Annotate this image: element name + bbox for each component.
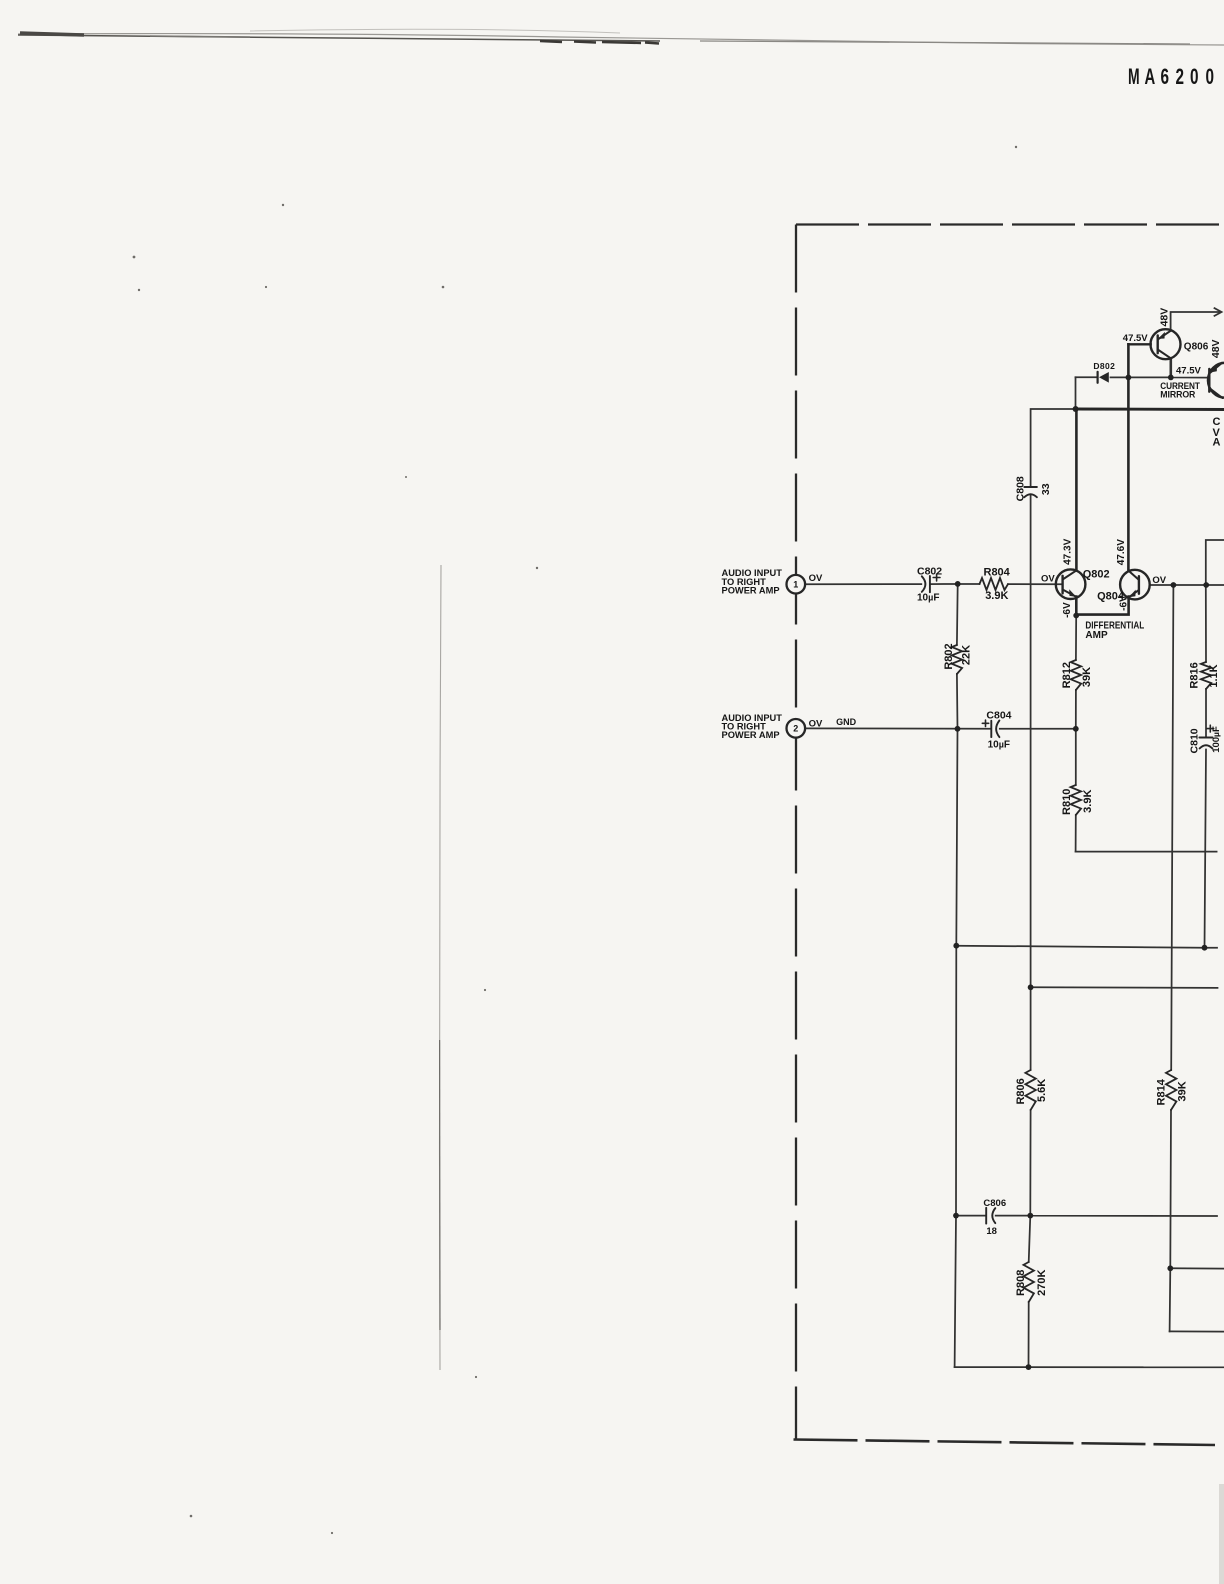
page title MA6200	[1128, 60, 1221, 90]
svg-text:Q802: Q802	[1083, 569, 1110, 581]
wire R802 column	[956, 584, 959, 729]
resistor R816	[1201, 662, 1211, 689]
wire main supply bus (thick)	[1076, 408, 1224, 411]
svg-text:48V: 48V	[1158, 308, 1170, 327]
label R802 value (rotated)	[943, 643, 972, 669]
capacitor C804	[982, 720, 999, 737]
diode D802	[1098, 372, 1109, 383]
svg-text:C808: C808	[1014, 476, 1026, 501]
node bottom rail / R808 junction	[1026, 1364, 1032, 1370]
node C804 / R812 column junction	[1073, 726, 1079, 732]
node diff emitter / R812 junction	[1073, 613, 1079, 619]
transistor Q804	[1120, 570, 1150, 600]
capacitor C806	[986, 1208, 995, 1224]
wire R812-R810 column with component gaps	[1075, 616, 1078, 852]
svg-text:47.5V: 47.5V	[1176, 366, 1201, 377]
svg-text:AMP: AMP	[1085, 630, 1108, 641]
label R806 value (rotated)	[1015, 1078, 1048, 1104]
resistor R810	[1071, 785, 1081, 815]
capacitor C808	[1024, 487, 1037, 497]
wire Q806 emitter lead	[1170, 358, 1173, 377]
wire D802 net: Q802 collector corner to bus	[1075, 377, 1077, 409]
wire Q804 base net to page edge	[1150, 584, 1224, 586]
svg-text:C804: C804	[986, 710, 1011, 722]
svg-text:10µF: 10µF	[988, 740, 1010, 751]
terminal 2 (audio input gnd)	[787, 719, 806, 738]
node Q804 base / R816 column junction	[1203, 582, 1209, 588]
svg-text:47.5V: 47.5V	[1123, 333, 1148, 344]
svg-text:3.9K: 3.9K	[985, 590, 1008, 602]
svg-text:2: 2	[793, 724, 798, 734]
wire R802 column below C804 net down to bottom-left corner	[955, 729, 958, 1367]
label CURRENT MIRROR	[1160, 380, 1200, 399]
svg-text:R810: R810	[1061, 789, 1073, 815]
svg-text:18: 18	[986, 1226, 997, 1237]
svg-text:Q806: Q806	[1184, 341, 1209, 352]
svg-text:R814: R814	[1156, 1078, 1168, 1105]
wire long right column from Q804 base node down to R814	[1170, 585, 1174, 1331]
transistor Q802	[1056, 569, 1086, 599]
svg-text:OV: OV	[809, 573, 823, 584]
svg-text:47.3V: 47.3V	[1063, 538, 1074, 564]
svg-text:R812: R812	[1061, 662, 1073, 688]
label C810 value (rotated)	[1188, 726, 1222, 753]
svg-text:100µF: 100µF	[1211, 726, 1222, 753]
svg-text:2: 2	[1176, 65, 1185, 90]
svg-text:-6V: -6V	[1062, 602, 1073, 618]
svg-text:1.1K: 1.1K	[1208, 664, 1220, 687]
dashed block border top	[796, 223, 1224, 225]
svg-text:OV: OV	[1152, 575, 1166, 586]
wire differential emitter bridge (thick)	[1076, 597, 1128, 615]
svg-text:R806: R806	[1015, 1078, 1027, 1104]
svg-text:C810: C810	[1188, 728, 1200, 753]
svg-text:M: M	[1128, 64, 1140, 89]
svg-text:C802: C802	[917, 565, 942, 577]
label R816 value (rotated)	[1189, 662, 1220, 688]
svg-text:OV: OV	[809, 718, 823, 729]
wire mid rail from R802 column to right	[956, 946, 1217, 948]
resistor R808	[1024, 1262, 1034, 1302]
svg-text:MIRROR: MIRROR	[1160, 389, 1195, 400]
svg-text:0: 0	[1190, 65, 1199, 90]
node mid rail left junction	[953, 943, 959, 949]
svg-text:R802: R802	[943, 643, 955, 669]
svg-text:39K: 39K	[1176, 1081, 1188, 1101]
wire bus thin stub from C808 corner	[1031, 409, 1076, 486]
wire R810 foot to right edge	[1076, 851, 1217, 853]
wire 48V rail from Q806 collector corner to page edge	[1171, 312, 1220, 331]
wire Q804 collector (thick)	[1127, 344, 1130, 570]
node C806 rail / R806-R808 junction	[1027, 1213, 1033, 1219]
svg-text:D802: D802	[1093, 361, 1115, 371]
label R812 value (rotated)	[1061, 662, 1093, 688]
node mid rail / C810 column junction	[1202, 945, 1208, 951]
wire bottom return rail	[955, 1366, 1224, 1368]
svg-text:10µF: 10µF	[917, 593, 939, 604]
svg-text:R804: R804	[984, 567, 1011, 579]
wire Q802 collector (thick)	[1075, 409, 1078, 571]
wire C806 net rail (gap at C806 plates)	[956, 1215, 1217, 1217]
transistor Q808 (cut by page edge)	[1208, 363, 1224, 398]
wire C808 column lower (to Q802 base crossing, down to R806)	[1029, 494, 1031, 1367]
svg-text:A: A	[1145, 65, 1156, 90]
svg-text:270K: 270K	[1036, 1269, 1048, 1295]
resistor R812	[1071, 660, 1081, 690]
node R814 bottom junction	[1167, 1265, 1173, 1271]
wire bias box corner at right edge	[1206, 540, 1224, 585]
wire input 1 to Q802 base (gaps at C802 plates and R804)	[805, 583, 1062, 585]
node R806 top rail junction	[1028, 984, 1034, 990]
wire D802 horizontal segment with diode gap	[1076, 376, 1209, 378]
wire rail from R806 top junction to right	[1031, 986, 1218, 989]
label R808 value (rotated)	[1015, 1269, 1048, 1295]
resistor R814	[1166, 1070, 1176, 1110]
svg-text:R808: R808	[1015, 1270, 1027, 1296]
svg-text:OV: OV	[1041, 573, 1055, 584]
svg-text:6: 6	[1161, 65, 1170, 90]
svg-text:48V: 48V	[1210, 339, 1222, 358]
resistor R802	[952, 645, 962, 674]
wire from right column bottom corner to right edge	[1170, 1330, 1224, 1332]
label terminal 2 text	[722, 713, 783, 740]
svg-text:A: A	[1213, 436, 1221, 448]
resistor R806	[1025, 1070, 1035, 1110]
node Q806 emitter / mirror junction	[1168, 375, 1174, 381]
node C802/R804/R802 junction	[955, 581, 961, 587]
label C808 value (rotated)	[1014, 476, 1051, 501]
wire from R814 bottom junction to right edge	[1170, 1267, 1224, 1269]
svg-text:33: 33	[1040, 483, 1052, 495]
label cut text at right edge	[1213, 416, 1221, 448]
svg-text:22K: 22K	[961, 645, 973, 665]
capacitor C802	[922, 574, 940, 592]
svg-text:GND: GND	[836, 717, 857, 727]
svg-text:POWER AMP: POWER AMP	[722, 730, 780, 740]
svg-text:R816: R816	[1189, 662, 1201, 688]
svg-text:0: 0	[1206, 65, 1215, 90]
svg-text:-6V: -6V	[1119, 595, 1130, 611]
wire R816-C810 column	[1205, 585, 1207, 948]
label terminal 1 text	[722, 568, 783, 595]
label C806 value	[983, 1198, 1006, 1237]
label C802 value	[917, 565, 942, 603]
node D802 / Q804 collector junction	[1126, 375, 1132, 381]
svg-text:3.9K: 3.9K	[1082, 790, 1094, 813]
resistor R804	[980, 578, 1009, 590]
node Q804 base / right column junction	[1171, 582, 1177, 588]
svg-text:39K: 39K	[1081, 667, 1093, 687]
wire Q806 base lead (thick)	[1128, 343, 1150, 345]
label R804 value	[984, 567, 1011, 603]
capacitor C810	[1199, 725, 1213, 748]
wire input 2 / GND to R812 column (gap at C804 plates)	[805, 727, 1076, 729]
label DIFFERENTIAL AMP	[1085, 621, 1144, 642]
dashed block border left	[795, 225, 797, 1441]
terminal 1 (audio input hot)	[787, 575, 806, 594]
svg-text:5.6K: 5.6K	[1036, 1079, 1048, 1102]
node C806 rail left junction	[953, 1213, 959, 1219]
label R814 value (rotated)	[1156, 1078, 1189, 1105]
node GND rail / R802 junction	[955, 726, 961, 732]
dashed block border bottom	[794, 1440, 1216, 1446]
node bus / Q802 collector junction	[1073, 406, 1079, 412]
label C804 value	[986, 710, 1011, 751]
transistor Q806	[1151, 329, 1181, 359]
svg-text:1: 1	[793, 580, 798, 590]
label R810 value (rotated)	[1061, 789, 1094, 815]
svg-text:POWER AMP: POWER AMP	[722, 585, 780, 595]
svg-text:C806: C806	[983, 1198, 1006, 1209]
svg-text:47.6V: 47.6V	[1116, 539, 1127, 565]
